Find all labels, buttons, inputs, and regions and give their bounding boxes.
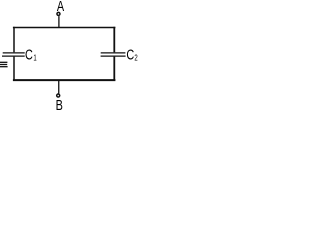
svg-text:A: A: [57, 0, 65, 14]
wire left upper segment: [13, 27, 15, 53]
svg-text:C: C: [126, 46, 134, 63]
wire bottom: [13, 79, 116, 81]
svg-text:B: B: [56, 96, 63, 113]
terminal A circle: [57, 12, 60, 15]
terminal B stub: [58, 80, 60, 94]
wire top: [13, 27, 116, 29]
label C1: [25, 46, 37, 63]
terminal A stub: [58, 16, 60, 28]
svg-text:C: C: [25, 46, 33, 63]
wire left lower segment: [13, 57, 15, 81]
svg-text:1: 1: [33, 55, 36, 63]
capacitor C2: [101, 53, 126, 56]
chassis lines (left edge): [0, 62, 8, 66]
label C2: [126, 46, 137, 63]
wire right lower segment: [113, 57, 115, 81]
terminal B circle: [57, 94, 60, 97]
wire right upper segment: [113, 27, 115, 53]
svg-text:2: 2: [134, 55, 137, 63]
capacitor C1: [2, 53, 25, 56]
